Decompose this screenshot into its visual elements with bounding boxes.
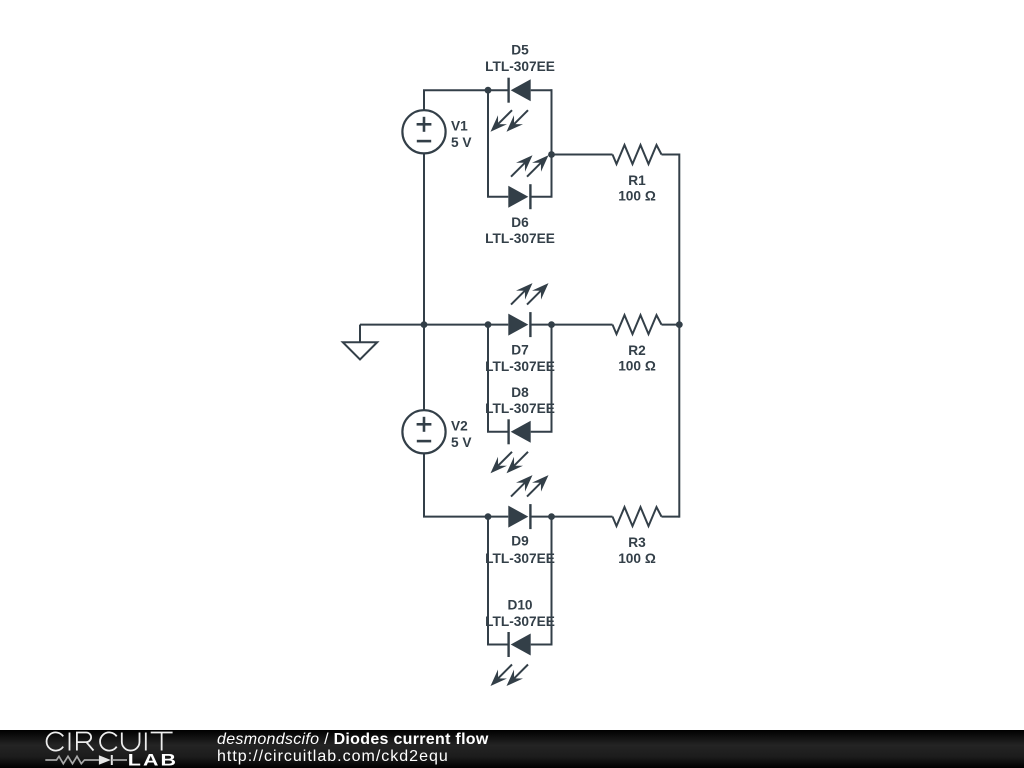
wire bottom of loop to LED D6 [487,196,508,198]
svg-text:LTL-307EE: LTL-307EE [485,359,555,374]
wire bottom of D9/D10 loop left [487,644,509,646]
wire from D6 cathode to right branch [530,196,552,198]
wire right branch of D5/D6 loop [551,89,553,197]
wire bottom rail from V2 to LED D9 [423,516,508,518]
svg-text:R1: R1 [628,173,646,188]
resistor R1 zigzag [613,145,662,164]
footer bar [0,730,1024,768]
LED D8 emission arrows [498,452,512,466]
wire from D7 cathode to R2 [530,324,612,326]
node junction top rail / D5-D6 left branch [485,87,492,94]
wire bottom of D7/D8 loop right [531,431,553,433]
resistor R3 zigzag [613,507,662,526]
svg-text:R3: R3 [628,535,646,550]
node junction middle rail / D7-D8 left branch [485,321,492,328]
svg-text:5 V: 5 V [451,135,472,150]
LED D8 diode (pointing left) [511,421,531,443]
node junction middle rail / D7-D8 right branch [548,321,555,328]
LED D6 emission arrows [511,162,525,176]
node junction bottom rail / D9-D10 left branch [485,513,492,520]
LED D9 emission arrows [511,482,525,496]
svg-text:LTL-307EE: LTL-307EE [485,551,555,566]
footer caption text [217,731,489,766]
svg-text:D6: D6 [511,215,529,230]
wire from R1 to right vertical rail [662,154,680,156]
svg-text:D9: D9 [511,533,529,548]
logo resistor symbol [45,756,99,763]
wire from V1 plus terminal up to top rail [423,90,425,110]
svg-text:D8: D8 [511,385,529,400]
svg-text:100 Ω: 100 Ω [618,189,656,204]
svg-text:LTL-307EE: LTL-307EE [485,59,555,74]
wire from V1 minus terminal down to ground node [423,153,425,324]
wire right branch of D9/D10 loop [551,517,553,645]
LED D5 diode (pointing left) [511,79,531,101]
node junction bottom rail / D9-D10 right branch [548,513,555,520]
svg-text:V2: V2 [451,418,468,433]
svg-text:LTL-307EE: LTL-307EE [485,231,555,246]
LED D5 emission arrows [498,110,512,124]
node main junction (V1- / V2+ / ground / middle rail) [421,321,428,328]
wire from D5 anode to right branch corner [531,89,552,91]
svg-text:100 Ω: 100 Ω [618,359,656,374]
svg-text:LTL-307EE: LTL-307EE [485,614,555,629]
wire right branch of D7/D8 loop [551,325,553,432]
wire right vertical rail [678,154,680,518]
wire from D9 cathode to R3 [530,516,612,518]
LED D9 diode (pointing right) [508,506,528,528]
LED D10 diode (pointing left) [511,634,531,656]
wire bottom of D7/D8 loop left [487,431,509,433]
svg-text:D10: D10 [507,598,532,613]
ground symbol triangle [343,342,377,359]
node junction right branch / R1 [548,151,555,158]
wire left branch of D5/D6 loop [487,90,489,197]
wire top rail from V1 to LED D5 [423,89,509,91]
wire from V2 minus down to bottom rail [423,453,425,516]
wire middle rail to LED D7 [424,324,508,326]
wire left branch of D7/D8 loop [487,325,489,432]
wire left branch of D9/D10 loop [487,517,489,645]
svg-text:R2: R2 [628,343,646,358]
resistor R2 zigzag [613,315,662,334]
svg-text:D7: D7 [511,342,529,357]
LED D6 diode (pointing right) [508,186,528,208]
wire bottom of D9/D10 loop right [531,644,553,646]
voltage source V2 5 V [402,410,445,453]
LED D7 diode (pointing right) [508,314,528,336]
node junction right rail / R2 [676,321,683,328]
wire from main junction down to V2 [423,325,425,411]
wire from R2 to right vertical rail [662,324,680,326]
svg-text:D5: D5 [511,43,529,58]
voltage source V1 5 V [402,110,445,153]
svg-text:LAB: LAB [128,752,178,768]
wire from R3 to right vertical rail corner [662,516,680,518]
ground stub [359,325,361,343]
svg-text:V1: V1 [451,118,468,133]
CircuitLab logo [0,730,210,768]
svg-text:5 V: 5 V [451,435,472,450]
wire from node to resistor R1 [552,154,613,156]
logo word CIRCUIT [47,732,173,750]
svg-text:100 Ω: 100 Ω [618,551,656,566]
LED D10 emission arrows [498,665,512,679]
ground wire from node [360,324,425,326]
svg-text:LTL-307EE: LTL-307EE [485,401,555,416]
LED D7 emission arrows [511,290,525,304]
logo diode symbol [99,755,111,765]
